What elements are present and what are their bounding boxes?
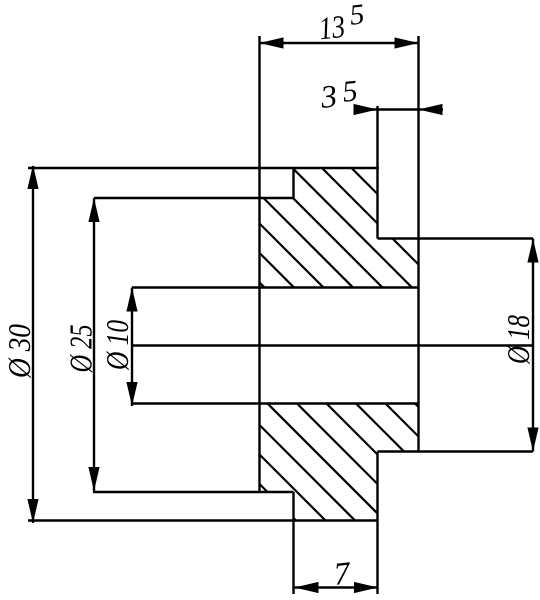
svg-text:Ø 10: Ø 10 <box>99 320 135 371</box>
svg-text:13: 13 <box>317 8 347 47</box>
svg-text:Ø 25: Ø 25 <box>63 325 99 374</box>
svg-text:Ø 18: Ø 18 <box>500 315 536 365</box>
svg-text:Ø 30: Ø 30 <box>1 324 37 379</box>
